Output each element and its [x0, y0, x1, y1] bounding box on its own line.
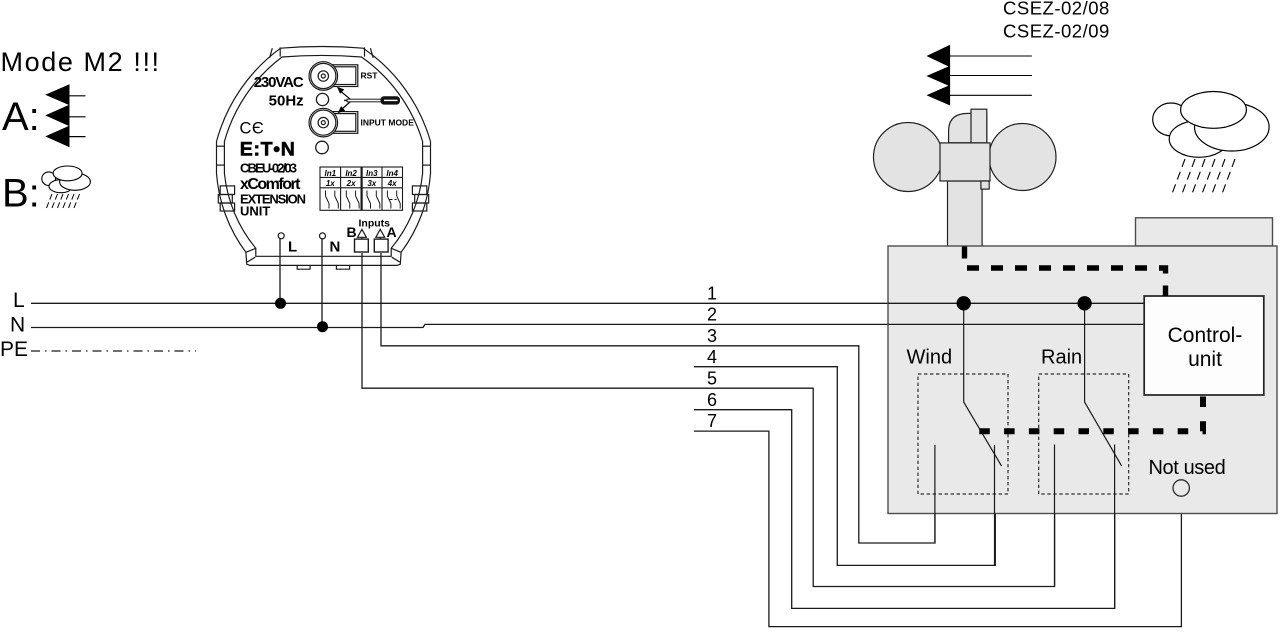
wire 7 stub to not-used terminal	[694, 431, 1181, 626]
wire PE rail (dash-dot)	[31, 350, 196, 352]
junction dot wire1 / rain pole	[1077, 296, 1091, 310]
wire N rail	[31, 324, 1144, 327]
bottom tab 2	[336, 265, 349, 269]
svg-text:N: N	[330, 239, 341, 256]
rain switch pole and blade	[1085, 303, 1122, 466]
mechanical link sensor post to control unit (thick dashed)	[965, 247, 1166, 297]
not used terminal circle	[1173, 480, 1189, 496]
svg-text:unit: unit	[1188, 348, 1222, 371]
svg-text:A: A	[387, 224, 397, 240]
sensor dome rect	[971, 109, 987, 143]
svg-text:N: N	[10, 314, 25, 337]
sensor post	[948, 181, 983, 247]
svg-text:Rain: Rain	[1041, 346, 1082, 368]
led circle lower	[316, 141, 329, 154]
wind symbol A (three black arrows)	[47, 85, 86, 147]
RST button	[309, 62, 338, 91]
housing inner outline	[224, 55, 422, 256]
input channel table	[320, 167, 403, 210]
INPUT MODE button tag	[330, 112, 358, 134]
terminal circle L	[278, 233, 284, 239]
svg-text:2x: 2x	[346, 179, 356, 188]
terminal square A	[374, 239, 388, 252]
wire 5 from terminal B to rain switch left contact	[362, 253, 1055, 587]
svg-text:PE: PE	[0, 338, 28, 361]
rain hatching under cloud B	[46, 194, 80, 211]
svg-text:CSEZ-02/09: CSEZ-02/09	[1003, 20, 1110, 41]
svg-text:Inputs: Inputs	[359, 218, 391, 230]
RST button tag	[330, 65, 358, 87]
sensor dome	[949, 113, 987, 142]
wind switch contacts	[934, 445, 936, 543]
top tab separators	[279, 47, 281, 56]
svg-text:Control-: Control-	[1168, 324, 1243, 347]
svg-text:In4: In4	[386, 169, 398, 178]
svg-text:3: 3	[707, 326, 717, 346]
svg-text:50Hz: 50Hz	[269, 93, 304, 110]
svg-text:1x: 1x	[326, 179, 335, 188]
led circle upper	[316, 93, 328, 105]
junction dot L	[275, 298, 286, 309]
screwdriver	[344, 97, 400, 104]
anemometer right cup	[989, 124, 1056, 191]
svg-text:6: 6	[707, 390, 717, 410]
wire from device terminal N	[321, 238, 323, 327]
triangle A	[376, 229, 385, 237]
svg-text:Not used: Not used	[1149, 457, 1226, 479]
svg-text:CЄ: CЄ	[240, 120, 265, 138]
right foot top edge	[391, 248, 401, 252]
wind symbol at sensor (three black arrows)	[928, 46, 1032, 105]
wire 6 stub to rain switch right contact	[694, 410, 1115, 609]
terminal circle N	[320, 233, 326, 239]
svg-text:A:: A:	[2, 95, 40, 139]
svg-text:In2: In2	[345, 169, 357, 178]
wire 2 inside box redraw	[888, 323, 1144, 325]
svg-text:In3: In3	[366, 169, 378, 178]
left clip slot	[217, 145, 225, 147]
extension unit CBEU-02/03 housing	[217, 47, 431, 270]
sensor housing box	[888, 246, 1277, 514]
svg-text:RST: RST	[361, 71, 379, 81]
svg-text:L: L	[13, 289, 25, 312]
anemometer left cup	[874, 123, 943, 192]
svg-text:230VAC: 230VAC	[254, 74, 304, 91]
terminal stems B/A	[361, 237, 363, 239]
mechanical link control unit to switches (thick dashed)	[978, 397, 1204, 432]
svg-text:4x: 4x	[387, 179, 397, 188]
rain cloud at sensor	[1153, 92, 1269, 158]
sensor centre block	[940, 143, 990, 181]
sensor housing raised cap	[1136, 218, 1273, 246]
control unit box	[1144, 296, 1264, 395]
rain switch contacts	[1054, 445, 1056, 587]
right clip slot	[423, 145, 431, 147]
svg-text:INPUT MODE: INPUT MODE	[361, 118, 415, 128]
svg-text:2: 2	[707, 305, 717, 325]
svg-text:E:T•N: E:T•N	[240, 139, 295, 161]
svg-text:CSEZ-02/08: CSEZ-02/08	[1003, 0, 1110, 19]
wire 3 from terminal A to wind switch left contact	[381, 253, 935, 543]
rain switch dashed box	[1039, 374, 1129, 494]
junction dot N	[317, 321, 328, 332]
svg-text:1: 1	[707, 284, 717, 304]
wire 1 inside box redraw	[888, 302, 1144, 304]
sensor block step	[981, 181, 989, 189]
svg-text:B:: B:	[2, 172, 40, 216]
bottom tab 1	[297, 265, 310, 269]
wire L rail	[31, 302, 1144, 304]
rain hatching under sensor cloud	[1171, 159, 1235, 197]
wind switch dashed box	[918, 374, 1008, 494]
wire from device terminal L	[279, 238, 281, 303]
svg-text:CBEU-02/03: CBEU-02/03	[240, 161, 297, 176]
right grip bricks	[412, 186, 426, 195]
table switch glyphs	[326, 191, 401, 209]
svg-text:Wind: Wind	[907, 346, 953, 368]
triangle B	[358, 229, 367, 237]
svg-text:5: 5	[707, 369, 717, 389]
svg-text:In1: In1	[325, 169, 337, 178]
left grip bricks	[220, 186, 234, 195]
svg-text:3x: 3x	[367, 179, 376, 188]
INPUT MODE button	[309, 108, 338, 137]
screwdriver arrows	[338, 88, 352, 113]
svg-text:L: L	[288, 239, 297, 256]
left foot top edge	[246, 248, 256, 252]
svg-text:xComfort: xComfort	[240, 176, 301, 193]
svg-text:7: 7	[707, 411, 717, 431]
svg-text:B: B	[347, 224, 357, 240]
terminal square B	[355, 239, 369, 252]
rain cloud symbol B	[42, 166, 91, 193]
wire 4 stub to wind switch right contact	[694, 367, 995, 566]
svg-text:4: 4	[707, 347, 717, 367]
svg-text:UNIT: UNIT	[240, 204, 270, 219]
junction dot wire1 / wind pole	[957, 296, 971, 310]
wind switch pole and blade	[964, 303, 1002, 466]
housing outer outline	[217, 47, 431, 266]
svg-text:Mode M2 !!!: Mode M2 !!!	[1, 47, 161, 77]
